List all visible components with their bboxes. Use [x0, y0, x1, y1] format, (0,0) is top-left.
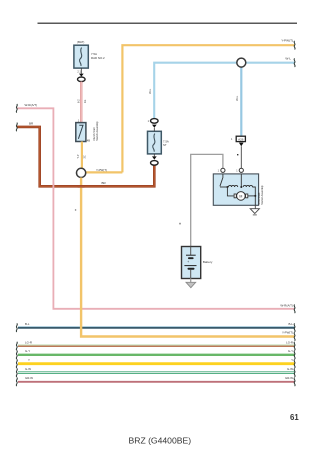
svg-text:Y: Y: [291, 358, 293, 362]
wire starter to ground: [254, 205, 256, 208]
svg-text:Y-P: Y-P: [77, 154, 80, 158]
svg-text:ST: ST: [163, 143, 167, 147]
svg-text:LG-R: LG-R: [25, 340, 32, 344]
ground starter: [250, 209, 259, 215]
connector oval below F2: [151, 161, 159, 166]
wire triangle to F2: [153, 128, 155, 132]
header rule: [38, 22, 298, 24]
connector circle starter pin2: [239, 168, 243, 172]
junction dot motor right: [254, 195, 256, 197]
pin dot battery wire: [179, 223, 180, 225]
svg-text:B-L: B-L: [289, 322, 294, 326]
wire Y-PW(T) junction branch: [86, 171, 123, 173]
svg-text:Y-PW(T): Y-PW(T): [96, 168, 107, 172]
battery B1: [182, 247, 201, 279]
connector oval below F1: [78, 77, 86, 82]
wire coil to right drop: [252, 187, 255, 205]
junction dot coil left: [226, 186, 228, 188]
svg-text:BR: BR: [29, 121, 34, 125]
pin dot yellow wire: [75, 209, 76, 211]
connector triangle above F2: [152, 125, 157, 128]
svg-text:W-R(A/T): W-R(A/T): [25, 103, 38, 107]
svg-text:B-L: B-L: [25, 322, 30, 326]
svg-text:BR: BR: [102, 181, 107, 185]
squiggle B-L left: [16, 323, 17, 332]
svg-text:G-W: G-W: [25, 367, 31, 371]
wire W-R(A/T) over BR crossing: [52, 183, 54, 190]
svg-text:G-Y: G-Y: [25, 349, 30, 353]
squiggle W-L right: [294, 58, 295, 67]
svg-text:RAD NO.2: RAD NO.2: [91, 56, 105, 60]
svg-text:1: 1: [231, 138, 233, 141]
svg-text:LG-R: LG-R: [286, 340, 293, 344]
ground battery body: [186, 282, 196, 287]
wire Y-PW(T) top horizontal: [122, 45, 294, 172]
coil L1 pull-in: [228, 185, 237, 187]
svg-text:1: 1: [236, 170, 238, 173]
fuse F1 7.5A RAD NO.2: [74, 45, 88, 68]
svg-text:M: M: [239, 194, 242, 198]
node junction Y: [77, 168, 86, 177]
svg-text:W-L: W-L: [285, 56, 291, 60]
motor M starter: [234, 192, 248, 201]
squiggle G-W left: [16, 368, 17, 377]
svg-text:(BAT): (BAT): [77, 40, 84, 44]
svg-text:2 1: 2 1: [77, 70, 81, 73]
svg-text:1: 1: [148, 120, 150, 123]
squiggle GR-W left: [16, 378, 17, 387]
svg-text:W-R(A/T): W-R(A/T): [280, 303, 293, 307]
squiggle Y left: [16, 359, 17, 368]
wire Y-PW(T) bottom: [81, 178, 295, 337]
pin dot 4: [237, 154, 238, 155]
svg-text:Switch Assembly: Switch Assembly: [95, 121, 99, 141]
wire R fuse to clutch switch: [80, 82, 82, 123]
bus line B-L: [18, 327, 295, 328]
fuse F2 7.5A ST: [148, 131, 162, 154]
squiggle BR left: [16, 123, 17, 132]
svg-text:Y-PW(T): Y-PW(T): [282, 331, 293, 335]
bus line G-Y: [18, 354, 295, 356]
svg-text:61: 61: [290, 413, 299, 422]
wire battery negative: [190, 279, 192, 283]
svg-text:GR-W: GR-W: [285, 376, 293, 380]
connector oval above F2: [151, 119, 159, 124]
svg-text:W-L: W-L: [235, 95, 239, 101]
wire W-L vertical to connector A26: [240, 63, 242, 137]
svg-text:3C: 3C: [83, 155, 86, 158]
svg-text:+: +: [187, 260, 189, 264]
bus line Y: [18, 362, 295, 365]
squiggle GR-W right: [294, 378, 295, 387]
wire fuse F1 to connector: [80, 68, 82, 74]
switch S1 clutch start switch: [76, 123, 86, 142]
svg-text:Y: Y: [28, 358, 30, 362]
wire battery to starter: [191, 154, 223, 246]
svg-text:Y-PW(T): Y-PW(T): [281, 39, 293, 43]
wire motor to right drop: [248, 195, 255, 197]
squiggle Y-PW(T) bottom right: [294, 332, 295, 341]
squiggle LG-R right: [294, 342, 295, 351]
svg-text:GR-W: GR-W: [25, 376, 33, 380]
squiggle Y right: [294, 359, 295, 368]
squiggle G-Y right: [294, 351, 295, 360]
squiggle W-R(A/T) right: [294, 305, 295, 314]
svg-text:Battery: Battery: [203, 260, 213, 264]
wire W-L horizontal: [154, 63, 294, 119]
node junction W-L: [237, 58, 246, 67]
squiggle G-W right: [294, 368, 295, 377]
wire pin2 to coils: [240, 174, 242, 187]
squiggle W-R(A/T) left: [16, 104, 17, 113]
svg-text:1: 1: [218, 170, 220, 173]
connector triangle below F2: [152, 156, 157, 159]
bus line G-W: [18, 372, 295, 374]
svg-text:4B: 4B: [87, 138, 90, 142]
squiggle LG-R left: [16, 342, 17, 351]
wire Y-P switch to junction: [81, 142, 83, 169]
svg-text:G-W: G-W: [287, 367, 293, 371]
wire BR: [17, 127, 154, 186]
connector A26: [236, 136, 245, 141]
switch starter magnetic: [220, 174, 223, 186]
wire left drop to motor: [227, 187, 233, 196]
wire BR over yellow crossing: [78, 185, 85, 188]
svg-text:G-Y: G-Y: [288, 349, 293, 353]
wire W-R(A/T): [17, 108, 295, 308]
connector triangle below A26: [239, 143, 244, 147]
connector triangle below F1: [79, 74, 84, 77]
svg-text:6-2: 6-2: [78, 99, 81, 103]
svg-text:1G: 1G: [84, 100, 87, 103]
coil L2 hold-in: [243, 185, 252, 187]
starter assembly box: [213, 174, 258, 205]
svg-text:A26: A26: [238, 137, 244, 141]
wire A26 to starter: [240, 146, 242, 168]
wire switch to coil: [220, 186, 229, 188]
squiggle B-L right: [294, 323, 295, 332]
svg-text:W-L: W-L: [148, 88, 152, 94]
svg-text:BRZ (G4400BE): BRZ (G4400BE): [129, 436, 192, 446]
squiggle Y-PW(T) top right: [294, 41, 295, 50]
connector circle starter pin1: [221, 168, 225, 172]
squiggle G-Y left: [16, 351, 17, 360]
wire F2 bottom to triangle: [153, 154, 155, 157]
junction dot coil mid: [240, 186, 242, 188]
bus line GR-W: [18, 381, 295, 383]
svg-text:Starter Assembly: Starter Assembly: [260, 185, 264, 205]
bus line LG-R: [18, 345, 295, 346]
